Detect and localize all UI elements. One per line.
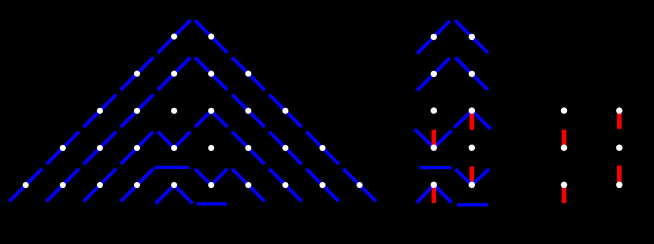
path P3 ascent (4,0)-(8,4) — [81, 129, 155, 203]
lattice dot (11,1) — [208, 182, 214, 188]
lattice dot (3,1) — [60, 182, 66, 188]
middle V right arm at row5 right dot — [472, 169, 490, 185]
r-dot row4 left — [561, 145, 567, 151]
m-dot row1 right — [469, 34, 475, 40]
path P5 level step (10,0)-(12,0) — [197, 202, 227, 205]
lattice dot (15,3) — [282, 145, 288, 151]
middle chevron 1 left arm — [415, 18, 453, 56]
lattice dot (15,5) — [282, 108, 288, 114]
path P4 level step (8,2)-(10,2) — [154, 166, 189, 169]
lattice dot (5,3) — [97, 145, 103, 151]
lattice dot (11,7) — [208, 71, 214, 77]
lattice dot (1,1) — [23, 182, 29, 188]
lattice dot (5,5) — [97, 108, 103, 114]
r-dot row3 right — [616, 107, 622, 113]
right red bar above row4 left dot — [562, 130, 567, 148]
middle chevron 2 left arm — [415, 55, 453, 93]
path P1 outer mountain ascent (0,0)-(10,10) — [7, 18, 193, 204]
m-dot row4 left — [431, 145, 437, 151]
middle chevron 2 right arm — [453, 55, 491, 93]
right red bar below row3 right dot — [617, 111, 622, 129]
middle bottom level bar right of center — [457, 203, 488, 206]
m-dot row5 left — [431, 182, 437, 188]
lattice dot (5,1) — [97, 182, 103, 188]
middle zigzag up run to row3 peak (upper half) — [454, 111, 472, 128]
middle red bar below row5 left dot — [431, 185, 436, 203]
lattice dot (7,3) — [134, 145, 140, 151]
path P4 up step (11,1)-(12,2) — [211, 166, 230, 185]
middle peak left arm at row5 left dot — [417, 185, 434, 203]
middle zigzag down step into row4 valley — [415, 129, 434, 148]
middle zigzag down step from row3 peak — [472, 111, 491, 130]
path P3 descent (11,5)-(16,0) — [211, 111, 304, 204]
middle peak right arm at row5 left dot — [434, 185, 452, 203]
lattice dot (7,1) — [134, 182, 140, 188]
r-dot row5 left — [561, 182, 567, 188]
lattice dot (17,3) — [319, 145, 325, 151]
right red bar below row5 left dot — [562, 185, 567, 203]
path P4 ascent (6,0)-(8,2) — [118, 166, 155, 203]
path P1 outer mountain descent (10,10)-(20,0) — [193, 18, 379, 204]
lattice dot (9,9) — [171, 34, 177, 40]
m-dot row3 right — [469, 107, 475, 113]
middle level bar left of center at half-row 4.5 — [420, 166, 452, 169]
m-dot row2 left — [431, 71, 437, 77]
lattice dot (11,3) — [208, 145, 214, 151]
r-dot row3 left — [561, 107, 567, 113]
lattice dot (11,9) — [208, 34, 214, 40]
lattice dot (13,5) — [245, 108, 251, 114]
path P3 down step (8,4)-(9,3) — [156, 129, 175, 148]
lattice dot (19,1) — [357, 182, 363, 188]
lattice dot (11,5) — [208, 108, 214, 114]
lattice dot (13,7) — [245, 71, 251, 77]
middle red bar above row5 right dot — [469, 166, 474, 184]
lattice dot (7,7) — [134, 71, 140, 77]
path P4 down step (10,2)-(11,1) — [193, 166, 212, 185]
lattice dot (9,3) — [171, 145, 177, 151]
lattice dot (3,3) — [60, 145, 66, 151]
m-dot row2 right — [469, 71, 475, 77]
middle red bar above row4 left dot — [431, 130, 436, 148]
middle zigzag up run row4 valley to row3 peak (lower half) — [434, 131, 452, 148]
lattice dot (17,1) — [319, 182, 325, 188]
lattice dot (9,5) — [171, 108, 177, 114]
r-dot row5 right — [616, 182, 622, 188]
lattice dot (15,1) — [282, 182, 288, 188]
lattice dot (9,1) — [171, 182, 177, 188]
middle V left arm at row5 right dot — [455, 169, 472, 185]
right red bar above row5 right dot — [617, 166, 622, 185]
lattice dot (9,7) — [171, 71, 177, 77]
m-dot row4 right — [469, 145, 475, 151]
m-dot row1 left — [431, 34, 437, 40]
path P5 down step (9,1)-(10,0) — [174, 185, 193, 204]
middle red bar below row3 right dot — [469, 111, 474, 130]
path P5 up step (8,0)-(9,1) — [156, 185, 175, 204]
m-dot row3 left — [431, 107, 437, 113]
r-dot row4 right — [616, 145, 622, 151]
lattice dot (13,1) — [245, 182, 251, 188]
lattice dot (7,5) — [134, 108, 140, 114]
m-dot row5 right — [469, 182, 475, 188]
path P2 mountain ascent (2,0)-(10,8) — [44, 55, 192, 203]
path P3 up run (9,3)-(11,5) — [174, 111, 211, 148]
path P4 descent (12,2)-(14,0) — [230, 166, 267, 203]
lattice dot (13,3) — [245, 145, 251, 151]
path P2 mountain descent (10,8)-(18,0) — [193, 55, 341, 203]
middle chevron 1 right arm — [453, 18, 491, 56]
